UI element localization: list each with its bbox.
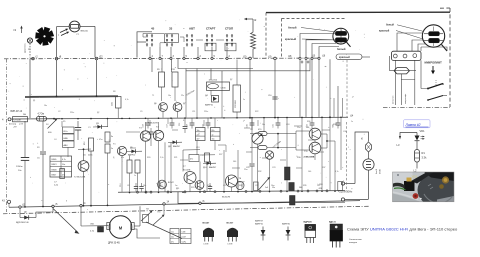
connector P4 labels bbox=[11, 111, 27, 116]
capacitor C10 bbox=[268, 95, 278, 99]
svg-text:22к: 22к bbox=[197, 134, 200, 136]
label red wire X2 bbox=[379, 30, 423, 40]
note text bbox=[349, 239, 363, 244]
caption (page title) bbox=[347, 227, 458, 232]
switch label СТОП bbox=[225, 26, 233, 30]
package BDP430 bbox=[304, 221, 316, 244]
wire to motor bbox=[81, 207, 109, 226]
diode D6 bbox=[154, 103, 167, 112]
svg-text:10к: 10к bbox=[168, 95, 171, 97]
junction 14 bbox=[163, 202, 170, 205]
wire drop x275 bbox=[274, 60, 276, 119]
lamp H2 (stroboscope illumination) bbox=[69, 21, 80, 32]
diode D8 bbox=[168, 140, 182, 148]
svg-text:ВАНР10: ВАНР10 bbox=[255, 223, 264, 226]
package BD131 bbox=[329, 222, 343, 248]
resistor R18 bbox=[127, 156, 132, 192]
tonearm compartment right border (dashed) bbox=[440, 8, 450, 107]
svg-text:С16: С16 bbox=[143, 124, 145, 127]
connector X2 lower contact bar bbox=[424, 27, 443, 47]
svg-text:R8: R8 bbox=[113, 91, 115, 93]
svg-text:10к: 10к bbox=[262, 124, 265, 126]
svg-text:R4: R4 bbox=[46, 124, 48, 126]
svg-text:белый: белый bbox=[288, 26, 297, 30]
svg-text:ВК4В: ВК4В bbox=[52, 169, 58, 171]
PCB right dashed border bbox=[346, 60, 349, 190]
svg-text:R38: R38 bbox=[333, 124, 336, 126]
svg-text:3.3k: 3.3k bbox=[422, 156, 428, 160]
svg-text:микролифт: микролифт bbox=[404, 94, 407, 104]
svg-text:ВС547: ВС547 bbox=[203, 222, 211, 225]
svg-text:330: 330 bbox=[239, 185, 242, 187]
resistor block R6 bbox=[63, 134, 75, 140]
wire switch drop A bbox=[151, 59, 153, 72]
svg-text:ВИР-4Р-10: ВИР-4Р-10 bbox=[11, 111, 23, 113]
connector X1 stub bbox=[346, 42, 350, 47]
resistor R-strobe (dropper) zigzag bbox=[251, 19, 256, 58]
svg-text:ИСч: ИСч bbox=[64, 131, 68, 133]
svg-text:красный: красный bbox=[339, 56, 350, 59]
label 2xBC307 bbox=[148, 122, 158, 125]
svg-text:автостоп: автостоп bbox=[393, 96, 395, 104]
resistor R8 bbox=[112, 97, 122, 119]
switch SA2 contact bbox=[427, 96, 447, 101]
trimmer R5 arrow bbox=[48, 119, 58, 135]
svg-text:R3: R3 bbox=[37, 147, 39, 149]
value annotations (scan texts) bbox=[33, 79, 353, 189]
transistor T10 bbox=[306, 127, 321, 140]
switch wire to junction 2 bbox=[197, 47, 202, 60]
wire upper-left rail y~96 bbox=[25, 95, 118, 98]
wire X1 leads to terminals bbox=[300, 34, 339, 58]
electrolytic C28 bbox=[290, 196, 296, 206]
labels near bottom row bbox=[120, 183, 323, 190]
wire X2 leads down bbox=[397, 33, 447, 51]
capacitor CM1 bbox=[90, 224, 104, 233]
junction t2 bbox=[32, 55, 39, 60]
trimmer P2 bbox=[141, 209, 153, 223]
microlift actuate arrow bbox=[431, 66, 435, 74]
wire switch drop B bbox=[161, 59, 163, 72]
wire drop x97 bbox=[96, 60, 98, 97]
switch label 33 bbox=[169, 26, 173, 30]
svg-text:Д11: Д11 bbox=[176, 188, 179, 190]
junction t6 bbox=[199, 200, 205, 205]
svg-text:ВС547В: ВС547В bbox=[222, 197, 231, 199]
svg-text:10к: 10к bbox=[44, 105, 47, 107]
svg-text:R12: R12 bbox=[84, 142, 86, 145]
svg-text:4,7к: 4,7к bbox=[125, 99, 129, 101]
switch bracket frame bbox=[137, 32, 152, 58]
svg-text:ВАНР10: ВАНР10 bbox=[128, 154, 135, 157]
trimmer P3 bbox=[153, 212, 165, 226]
junction t19 bbox=[268, 55, 276, 59]
wire lamp loop right bbox=[80, 26, 95, 57]
svg-text:С23: С23 bbox=[272, 167, 275, 169]
switch label АВТ bbox=[189, 26, 195, 30]
capacitor C7 bbox=[54, 169, 64, 187]
diode package BAVP40 bbox=[282, 223, 291, 241]
svg-text:СГ3-08: СГ3-08 bbox=[14, 120, 22, 122]
wire left risers bbox=[62, 118, 108, 206]
lever 2 bbox=[146, 222, 182, 239]
junction label t16 bbox=[322, 54, 326, 57]
svg-text:4мкФ: 4мкФ bbox=[375, 169, 378, 174]
label BC547B bottom bbox=[222, 197, 231, 199]
svg-text:YD1: YD1 bbox=[412, 175, 418, 179]
resistor R34 bbox=[250, 132, 278, 136]
svg-text:1к0: 1к0 bbox=[265, 187, 268, 189]
terminal at x=306 bbox=[305, 57, 307, 59]
svg-text:Схема ЭПУ UNITRA G602C Hi-Fi д: Схема ЭПУ UNITRA G602C Hi-Fi для Вега - … bbox=[347, 227, 458, 232]
capacitor R40 on rail bbox=[333, 117, 341, 128]
label D5 bbox=[16, 212, 29, 224]
label L2 bbox=[414, 169, 417, 173]
svg-text:Соответствие: Соответствие bbox=[349, 239, 363, 241]
label C6 220n bbox=[83, 155, 92, 157]
resistor block R5 bbox=[63, 127, 75, 133]
svg-text:Д2: Д2 bbox=[97, 112, 99, 114]
label t18 bbox=[288, 55, 292, 58]
resistor R1 bbox=[415, 150, 420, 163]
svg-text:≈220V/50Hz: ≈220V/50Hz bbox=[338, 190, 353, 194]
svg-text:47н: 47н bbox=[171, 242, 174, 244]
transistor package BC547 bbox=[203, 222, 215, 246]
svg-text:ВДР430/С40: ВДР430/С40 bbox=[16, 222, 29, 224]
wire switch drop D bbox=[185, 71, 187, 100]
svg-text:белый: белый bbox=[337, 47, 346, 51]
autostop lever bbox=[53, 209, 80, 234]
svg-text:С В Е: С В Е bbox=[227, 244, 233, 246]
svg-text:560: 560 bbox=[299, 187, 302, 189]
connector P4 (input) bbox=[2, 117, 28, 122]
svg-text:С21: С21 bbox=[273, 124, 275, 127]
svg-text:2×ВС308В: 2×ВС308В bbox=[304, 156, 315, 159]
wire lower bus (chassis return) bbox=[9, 201, 360, 208]
svg-text:22к: 22к bbox=[181, 95, 184, 97]
terminal at x=300 bbox=[299, 57, 301, 59]
misc wiring stubs bbox=[126, 118, 330, 168]
svg-text:белый: белый bbox=[386, 24, 394, 27]
label aux voltage bbox=[185, 89, 196, 97]
switch label 45 bbox=[151, 26, 155, 30]
trimmer R31 bbox=[259, 177, 271, 190]
wire motor links bbox=[134, 205, 164, 239]
svg-text:2СЕ30В2: 2СЕ30В2 bbox=[235, 100, 237, 108]
svg-text:100: 100 bbox=[308, 171, 311, 173]
wires right risers bbox=[258, 117, 342, 191]
wire top-middle links bbox=[163, 60, 237, 118]
electrolytic C26 bbox=[285, 118, 291, 191]
svg-text:С20: С20 bbox=[247, 124, 249, 127]
label R1 3.3k bbox=[422, 151, 428, 160]
transistor T1 bbox=[113, 144, 127, 156]
light rays to rotor bbox=[60, 29, 69, 36]
resistor R41 bbox=[254, 182, 259, 191]
svg-text:4.7к: 4.7к bbox=[62, 159, 66, 161]
connector X2 upper contact bar bbox=[424, 32, 443, 36]
wire drop x30 bbox=[29, 59, 31, 118]
svg-text:ДРМ 33-4Б: ДРМ 33-4Б bbox=[108, 243, 120, 245]
svg-text:СК30: СК30 bbox=[221, 88, 227, 90]
tonearm compartment left border (dashed) bbox=[265, 13, 267, 58]
label red wire (upper) bbox=[285, 37, 334, 41]
wire lamp loop left bbox=[57, 27, 70, 58]
label 2xBC308 bbox=[304, 156, 315, 159]
svg-text:ВС547: ВС547 bbox=[168, 182, 174, 184]
svg-text:11н: 11н bbox=[171, 232, 174, 234]
wire drop x330 bbox=[329, 59, 331, 118]
svg-text:15к: 15к bbox=[212, 139, 215, 141]
connector X1 (cartridge) body bbox=[333, 28, 349, 44]
svg-text:красный: красный bbox=[379, 30, 390, 33]
svg-text:1200м: 1200м bbox=[16, 166, 23, 168]
svg-text:R21: R21 bbox=[174, 157, 177, 159]
resistor R26 bbox=[189, 155, 199, 162]
junction dots on rails bbox=[61, 116, 342, 193]
wire switch drop E bbox=[196, 69, 198, 101]
switch S2 contact group bbox=[166, 35, 173, 47]
switch SA1 (autostop) contact bbox=[427, 80, 444, 90]
diode D9 bbox=[127, 147, 142, 157]
wire primary loop bbox=[355, 132, 369, 184]
junction t22 bbox=[95, 54, 103, 60]
svg-text:М: М bbox=[119, 226, 123, 231]
wire bottom PCB rail bbox=[118, 191, 345, 193]
svg-text:С10: С10 bbox=[268, 95, 271, 97]
svg-text:АВТ: АВТ bbox=[189, 26, 195, 30]
capacitor С22 on rail bbox=[307, 117, 315, 128]
label VD1 bbox=[420, 129, 426, 133]
svg-text:3к: 3к bbox=[111, 136, 113, 138]
chassis boundary bus (dash-dot) bbox=[4, 57, 318, 60]
resistor R35 bbox=[250, 146, 278, 150]
svg-text:2×ВС307В: 2×ВС307В bbox=[148, 122, 158, 125]
switch S4 lower contact box bbox=[205, 43, 216, 51]
svg-text:R39: R39 bbox=[303, 185, 306, 187]
capacitor C-motor (in circle) bbox=[363, 152, 374, 199]
resistor R19 bbox=[135, 160, 140, 192]
svg-text:С9: С9 bbox=[140, 111, 142, 113]
svg-text:а 0V: а 0V bbox=[19, 124, 24, 126]
wire R2 to rail bbox=[47, 118, 61, 120]
switch S5 lower contact box bbox=[225, 43, 236, 51]
switch wire to junction 5 bbox=[183, 47, 188, 60]
svg-text:R29: R29 bbox=[191, 187, 194, 189]
svg-text:560: 560 bbox=[233, 161, 236, 163]
chassis bottom boundary (dash-dot) bbox=[3, 206, 370, 214]
svg-text:ВД131: ВД131 bbox=[329, 222, 337, 224]
svg-text:ВАНР47: ВАНР47 bbox=[173, 145, 180, 148]
label 12V 20mA bbox=[272, 140, 282, 149]
resistor R12 bbox=[84, 138, 94, 151]
stroboscope rotor disc (star) bbox=[35, 27, 54, 46]
wire secondary lower rail bbox=[178, 192, 345, 204]
motor M2 (stroboscope drive) symbol bbox=[27, 38, 32, 43]
svg-text:С22: С22 bbox=[223, 185, 226, 187]
transistor T8 bbox=[158, 180, 174, 189]
junction t4 bbox=[80, 202, 86, 207]
trimmer P1 bbox=[250, 129, 263, 144]
link label Lampa #2 bbox=[404, 120, 431, 128]
label white wire (lower) bbox=[337, 47, 346, 51]
wire drop x250 bbox=[249, 60, 251, 119]
svg-text:220н: 220н bbox=[70, 112, 74, 114]
label white wire (upper) bbox=[288, 26, 335, 32]
svg-text:R20: R20 bbox=[147, 157, 150, 159]
svg-text:ВК4Л: ВК4Л bbox=[52, 164, 58, 166]
tonearm compartment top border bbox=[266, 11, 450, 13]
electrolytic C28 (upper) bbox=[289, 183, 294, 191]
label autostop (vertical) bbox=[393, 94, 408, 104]
capacitor С18 on rail bbox=[187, 118, 195, 129]
resistor R28 bbox=[205, 153, 210, 162]
capacitor C33 bbox=[208, 183, 212, 191]
svg-text:VD1: VD1 bbox=[420, 129, 426, 133]
svg-text:ВС547В: ВС547В bbox=[183, 169, 191, 171]
wire motor M2 to bus bbox=[29, 43, 31, 57]
svg-text:МИКРОЛИФТ: МИКРОЛИФТ bbox=[425, 61, 443, 65]
capacitor С16 on rail bbox=[143, 118, 151, 128]
wire +rail (main horizontal, y~119) bbox=[12, 117, 349, 119]
wire L3 branch bbox=[399, 133, 417, 140]
diode D4 bbox=[205, 95, 219, 107]
transistor package BC307 bbox=[227, 223, 239, 246]
wire collector below switches bbox=[178, 58, 310, 70]
svg-text:t22: t22 bbox=[99, 54, 103, 58]
LED VD1 bbox=[415, 136, 425, 141]
wire R1 to L2 bbox=[416, 162, 418, 169]
capacitor C29 (circle) bbox=[236, 182, 244, 190]
svg-text:Т2 ВС547В: Т2 ВС547В bbox=[74, 177, 86, 179]
svg-text:4,7н: 4,7н bbox=[335, 171, 339, 173]
diode D10 bbox=[203, 161, 216, 169]
switch S1 contact group bbox=[146, 35, 153, 47]
wire microlift verticals bbox=[395, 60, 428, 105]
svg-text:Лампа #2: Лампа #2 bbox=[405, 123, 421, 127]
svg-text:45: 45 bbox=[151, 26, 155, 30]
connector X2 stub bbox=[442, 45, 448, 52]
svg-text:См47: См47 bbox=[182, 237, 187, 239]
svg-text:НВБ: НВБ bbox=[64, 138, 69, 140]
reference table bbox=[50, 156, 72, 177]
junction t20 bbox=[243, 55, 251, 59]
capacitor C4 (1200u) bbox=[16, 121, 29, 208]
svg-text:С11: С11 bbox=[192, 111, 195, 113]
svg-text:4,7м: 4,7м bbox=[90, 231, 95, 233]
terminal at x=319 bbox=[318, 57, 320, 59]
svg-text:220н: 220н bbox=[204, 111, 208, 113]
mains terminal lower bbox=[341, 198, 368, 201]
capacitor C5 bbox=[37, 121, 46, 207]
label mains 220V bbox=[338, 190, 353, 194]
transistor T6 bbox=[226, 175, 246, 187]
microlift solenoid L1 bbox=[390, 56, 416, 80]
switch wire to junction 3 bbox=[170, 47, 175, 60]
resistor R11 bbox=[105, 144, 113, 153]
svg-text:СТАРТ: СТАРТ bbox=[206, 26, 216, 30]
switch S4 contact group bbox=[206, 35, 213, 47]
switch S5 contact group bbox=[226, 35, 233, 47]
wire drop x57 bbox=[56, 60, 58, 98]
capacitor C25 bbox=[246, 118, 255, 191]
svg-text:15к: 15к bbox=[272, 187, 275, 189]
svg-text:С18: С18 bbox=[187, 124, 189, 127]
svg-text:R1: R1 bbox=[422, 151, 426, 155]
capacitor С21 on rail bbox=[273, 117, 281, 128]
junction label t14 bbox=[350, 115, 354, 118]
resistor R9 bbox=[157, 69, 165, 101]
svg-text:250В: 250В bbox=[380, 169, 382, 174]
wire drop x338 bbox=[334, 86, 343, 117]
svg-text:220n: 220n bbox=[88, 155, 92, 157]
svg-text:СТОП: СТОП bbox=[225, 26, 233, 30]
terminal block X3 bbox=[392, 51, 422, 60]
svg-text:+12В: +12В bbox=[318, 184, 323, 186]
wire switch drop G bbox=[221, 71, 223, 80]
tonearm ground lugs bbox=[301, 61, 310, 64]
svg-text:1н: 1н bbox=[243, 99, 245, 101]
rectifier CK30 bbox=[207, 80, 230, 91]
svg-text:101-0314: 101-0314 bbox=[209, 80, 218, 82]
motor M1 bbox=[107, 216, 134, 239]
svg-text:Д10: Д10 bbox=[203, 167, 206, 169]
wire switch drop C bbox=[171, 59, 173, 72]
transistor T4 bbox=[153, 127, 163, 141]
svg-text:СмРа: СмРа bbox=[182, 242, 187, 244]
svg-text:С2: С2 bbox=[58, 111, 60, 113]
switch label СТАРТ bbox=[206, 26, 216, 30]
switch S2 contact box bbox=[165, 34, 179, 43]
svg-text:С4: С4 bbox=[54, 139, 56, 141]
resistor block R7 bbox=[63, 141, 75, 147]
capacitor C14 bbox=[149, 128, 154, 139]
svg-text:ВС307: ВС307 bbox=[227, 223, 235, 225]
svg-text:ВАНР47: ВАНР47 bbox=[255, 220, 264, 223]
svg-text:R30: R30 bbox=[307, 121, 310, 123]
capacitor С17 on rail bbox=[167, 118, 175, 129]
svg-text:Д1: Д1 bbox=[33, 100, 35, 102]
svg-text:1к: 1к bbox=[351, 121, 353, 123]
svg-text:47к: 47к bbox=[190, 159, 193, 161]
terminal 43 bbox=[2, 200, 11, 208]
connector X1 lower contact bar bbox=[335, 38, 346, 42]
transistor T11 bbox=[304, 142, 321, 154]
transistor T2 bbox=[74, 161, 89, 179]
resistor R42 bbox=[338, 182, 343, 191]
svg-text:ВДР430: ВДР430 bbox=[304, 221, 313, 224]
svg-text:выводов: выводов bbox=[349, 242, 357, 244]
connector X2 (headshell) body bbox=[422, 25, 444, 47]
capacitor C15 bbox=[179, 118, 187, 133]
svg-text:t3: t3 bbox=[14, 28, 17, 32]
svg-text:10к: 10к bbox=[62, 164, 65, 166]
transistor T7 bbox=[183, 166, 196, 184]
wires central risers A bbox=[122, 139, 171, 192]
wires central horizontals bbox=[146, 122, 216, 155]
junction t11 bbox=[19, 204, 26, 209]
pinout table B bbox=[181, 229, 192, 244]
node t3 (power feed arrow) bbox=[14, 26, 23, 34]
svg-text:С1М: С1М bbox=[182, 232, 186, 234]
scan speckle noise bbox=[8, 17, 368, 210]
svg-text:Т1: Т1 bbox=[152, 95, 154, 97]
svg-text:R27: R27 bbox=[219, 154, 222, 156]
photo of turntable mechanism bbox=[393, 172, 459, 207]
junction t5 bbox=[52, 203, 58, 208]
diode package BAVP47 bbox=[255, 220, 265, 241]
svg-text:Штекер: Штекер bbox=[9, 124, 17, 126]
